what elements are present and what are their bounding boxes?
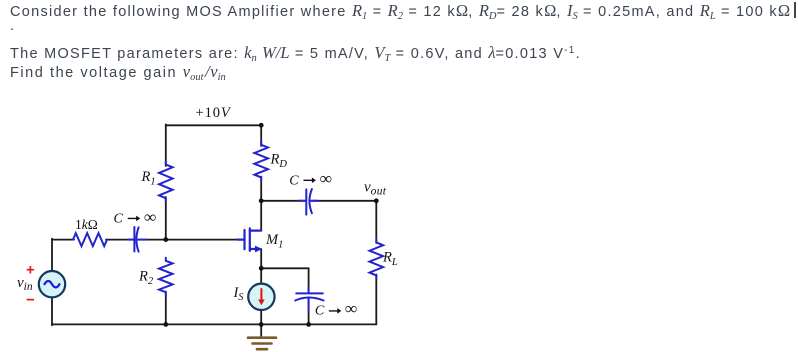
svg-text:M1: M1 (265, 232, 283, 251)
wire R2 lower lead (165, 292, 167, 325)
svg-text:R1: R1 (141, 169, 156, 188)
resistor RL (370, 239, 384, 278)
label C to inf bypass (315, 299, 357, 318)
wire IS upper lead (260, 268, 262, 284)
problem text line 4 (10, 62, 226, 82)
wire top rail (166, 124, 261, 126)
wire RL lower lead (375, 275, 377, 325)
svg-text:∞: ∞ (320, 169, 332, 188)
capacitor C input left plate (133, 227, 135, 252)
capacitor C bypass top plate (296, 292, 323, 294)
resistor R2 (159, 258, 173, 296)
capacitor C bypass lead stubs (308, 288, 310, 293)
transistor M1 drain lead (250, 230, 261, 232)
wire bottom rail (52, 323, 376, 325)
text cursor (794, 2, 796, 18)
wire input cap to gate node (140, 239, 239, 241)
capacitor C input curved plate (136, 227, 138, 251)
wire M1 drain vertical (260, 201, 262, 231)
node drain (259, 198, 264, 203)
svg-text:−: − (26, 292, 35, 309)
svg-text:1kΩ: 1kΩ (75, 217, 98, 232)
node bottom R2 (163, 322, 168, 327)
wire M1 source vertical (260, 249, 262, 268)
transistor M1 source arrow (255, 246, 262, 253)
wire drain node to output cap (261, 200, 305, 202)
capacitor C bypass curved plate (295, 298, 323, 301)
transistor M1 gate lead (238, 239, 245, 241)
capacitor C output curved plate (309, 189, 311, 213)
ground (248, 338, 276, 350)
wire 1k resistor to input cap (106, 239, 134, 241)
problem text line 3 (10, 43, 581, 63)
label C to inf output (289, 169, 332, 188)
node vout (374, 198, 379, 203)
svg-text:∞: ∞ (144, 207, 156, 226)
node top rail / RD (259, 123, 264, 128)
resistor 1k (73, 233, 107, 246)
capacitor C input lead stubs (128, 239, 134, 241)
resistor R1 (159, 161, 173, 201)
source vin circle (39, 271, 65, 297)
svg-text:∞: ∞ (345, 299, 357, 318)
wire R1 upper lead (165, 124, 167, 166)
wire vin lower lead (51, 297, 53, 325)
wire RL upper lead (375, 201, 377, 243)
wire vin upper lead (51, 239, 53, 272)
wire source node to bypass branch (261, 267, 308, 269)
svg-text:C: C (315, 303, 325, 318)
node bottom bypass (306, 322, 311, 327)
svg-text:+: + (26, 262, 35, 279)
resistor RD (254, 142, 268, 181)
capacitor C output left plate (305, 189, 307, 214)
svg-text:R2: R2 (138, 269, 154, 288)
svg-text:vout: vout (364, 180, 387, 198)
wire RD lower lead (260, 177, 262, 201)
node bottom IS (259, 322, 264, 327)
current source IS circle (248, 284, 274, 310)
wire gate left segment (52, 239, 74, 241)
svg-text:IS: IS (233, 285, 244, 303)
capacitor C output lead stubs (298, 200, 305, 202)
wire RD upper lead (260, 125, 262, 146)
label C to inf input (114, 207, 157, 226)
svg-text:RD: RD (270, 152, 288, 171)
svg-text:RL: RL (382, 250, 398, 269)
transistor M1 gate bar (243, 230, 245, 249)
current source IS arrow (260, 289, 262, 301)
wire IS lower lead / ground stem (260, 309, 262, 336)
wire R1 lower to gate node (165, 197, 167, 241)
transistor M1 channel bar (249, 228, 251, 251)
source vin sine symbol (45, 281, 60, 287)
transistor M1 source lead (250, 248, 257, 250)
node source (259, 266, 264, 271)
wire bypass branch upper (308, 268, 310, 292)
svg-text:C: C (289, 173, 299, 188)
wire bypass branch lower (308, 299, 310, 325)
wire output cap to vout node (312, 200, 377, 202)
node gate / R1 R2 (163, 237, 168, 242)
svg-text:C: C (114, 212, 124, 227)
problem text line 2 (period) (10, 18, 15, 34)
problem text line 1 (10, 1, 790, 21)
svg-text:+10V: +10V (196, 105, 232, 121)
